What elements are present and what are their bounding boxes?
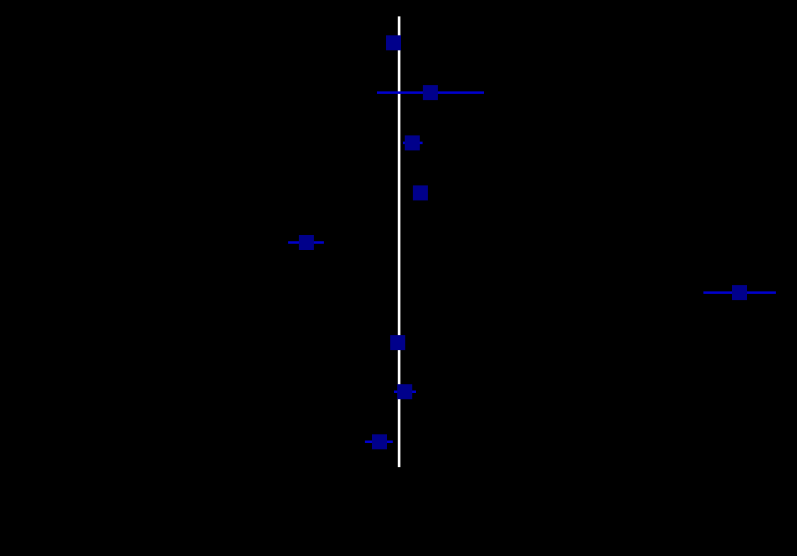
marker row 2: [423, 85, 438, 100]
error bar row 5: [288, 241, 324, 244]
marker row 1: [386, 35, 401, 50]
marker row 9: [372, 434, 387, 449]
marker row 7: [390, 335, 405, 350]
marker row 8: [397, 384, 412, 399]
error bar row 6: [703, 291, 776, 294]
marker row 3: [405, 135, 420, 150]
error bar row 2: [377, 91, 484, 94]
marker row 5: [299, 235, 314, 250]
error bar row 8: [394, 390, 416, 393]
marker row 6: [732, 285, 747, 300]
error bar row 9: [365, 441, 393, 444]
error bar row 3: [403, 142, 423, 145]
error bar row 4: [414, 192, 427, 195]
error bar row 1: [388, 42, 399, 45]
vertical reference line: [398, 16, 401, 467]
error bar row 7: [392, 341, 403, 344]
marker row 4: [413, 185, 428, 200]
